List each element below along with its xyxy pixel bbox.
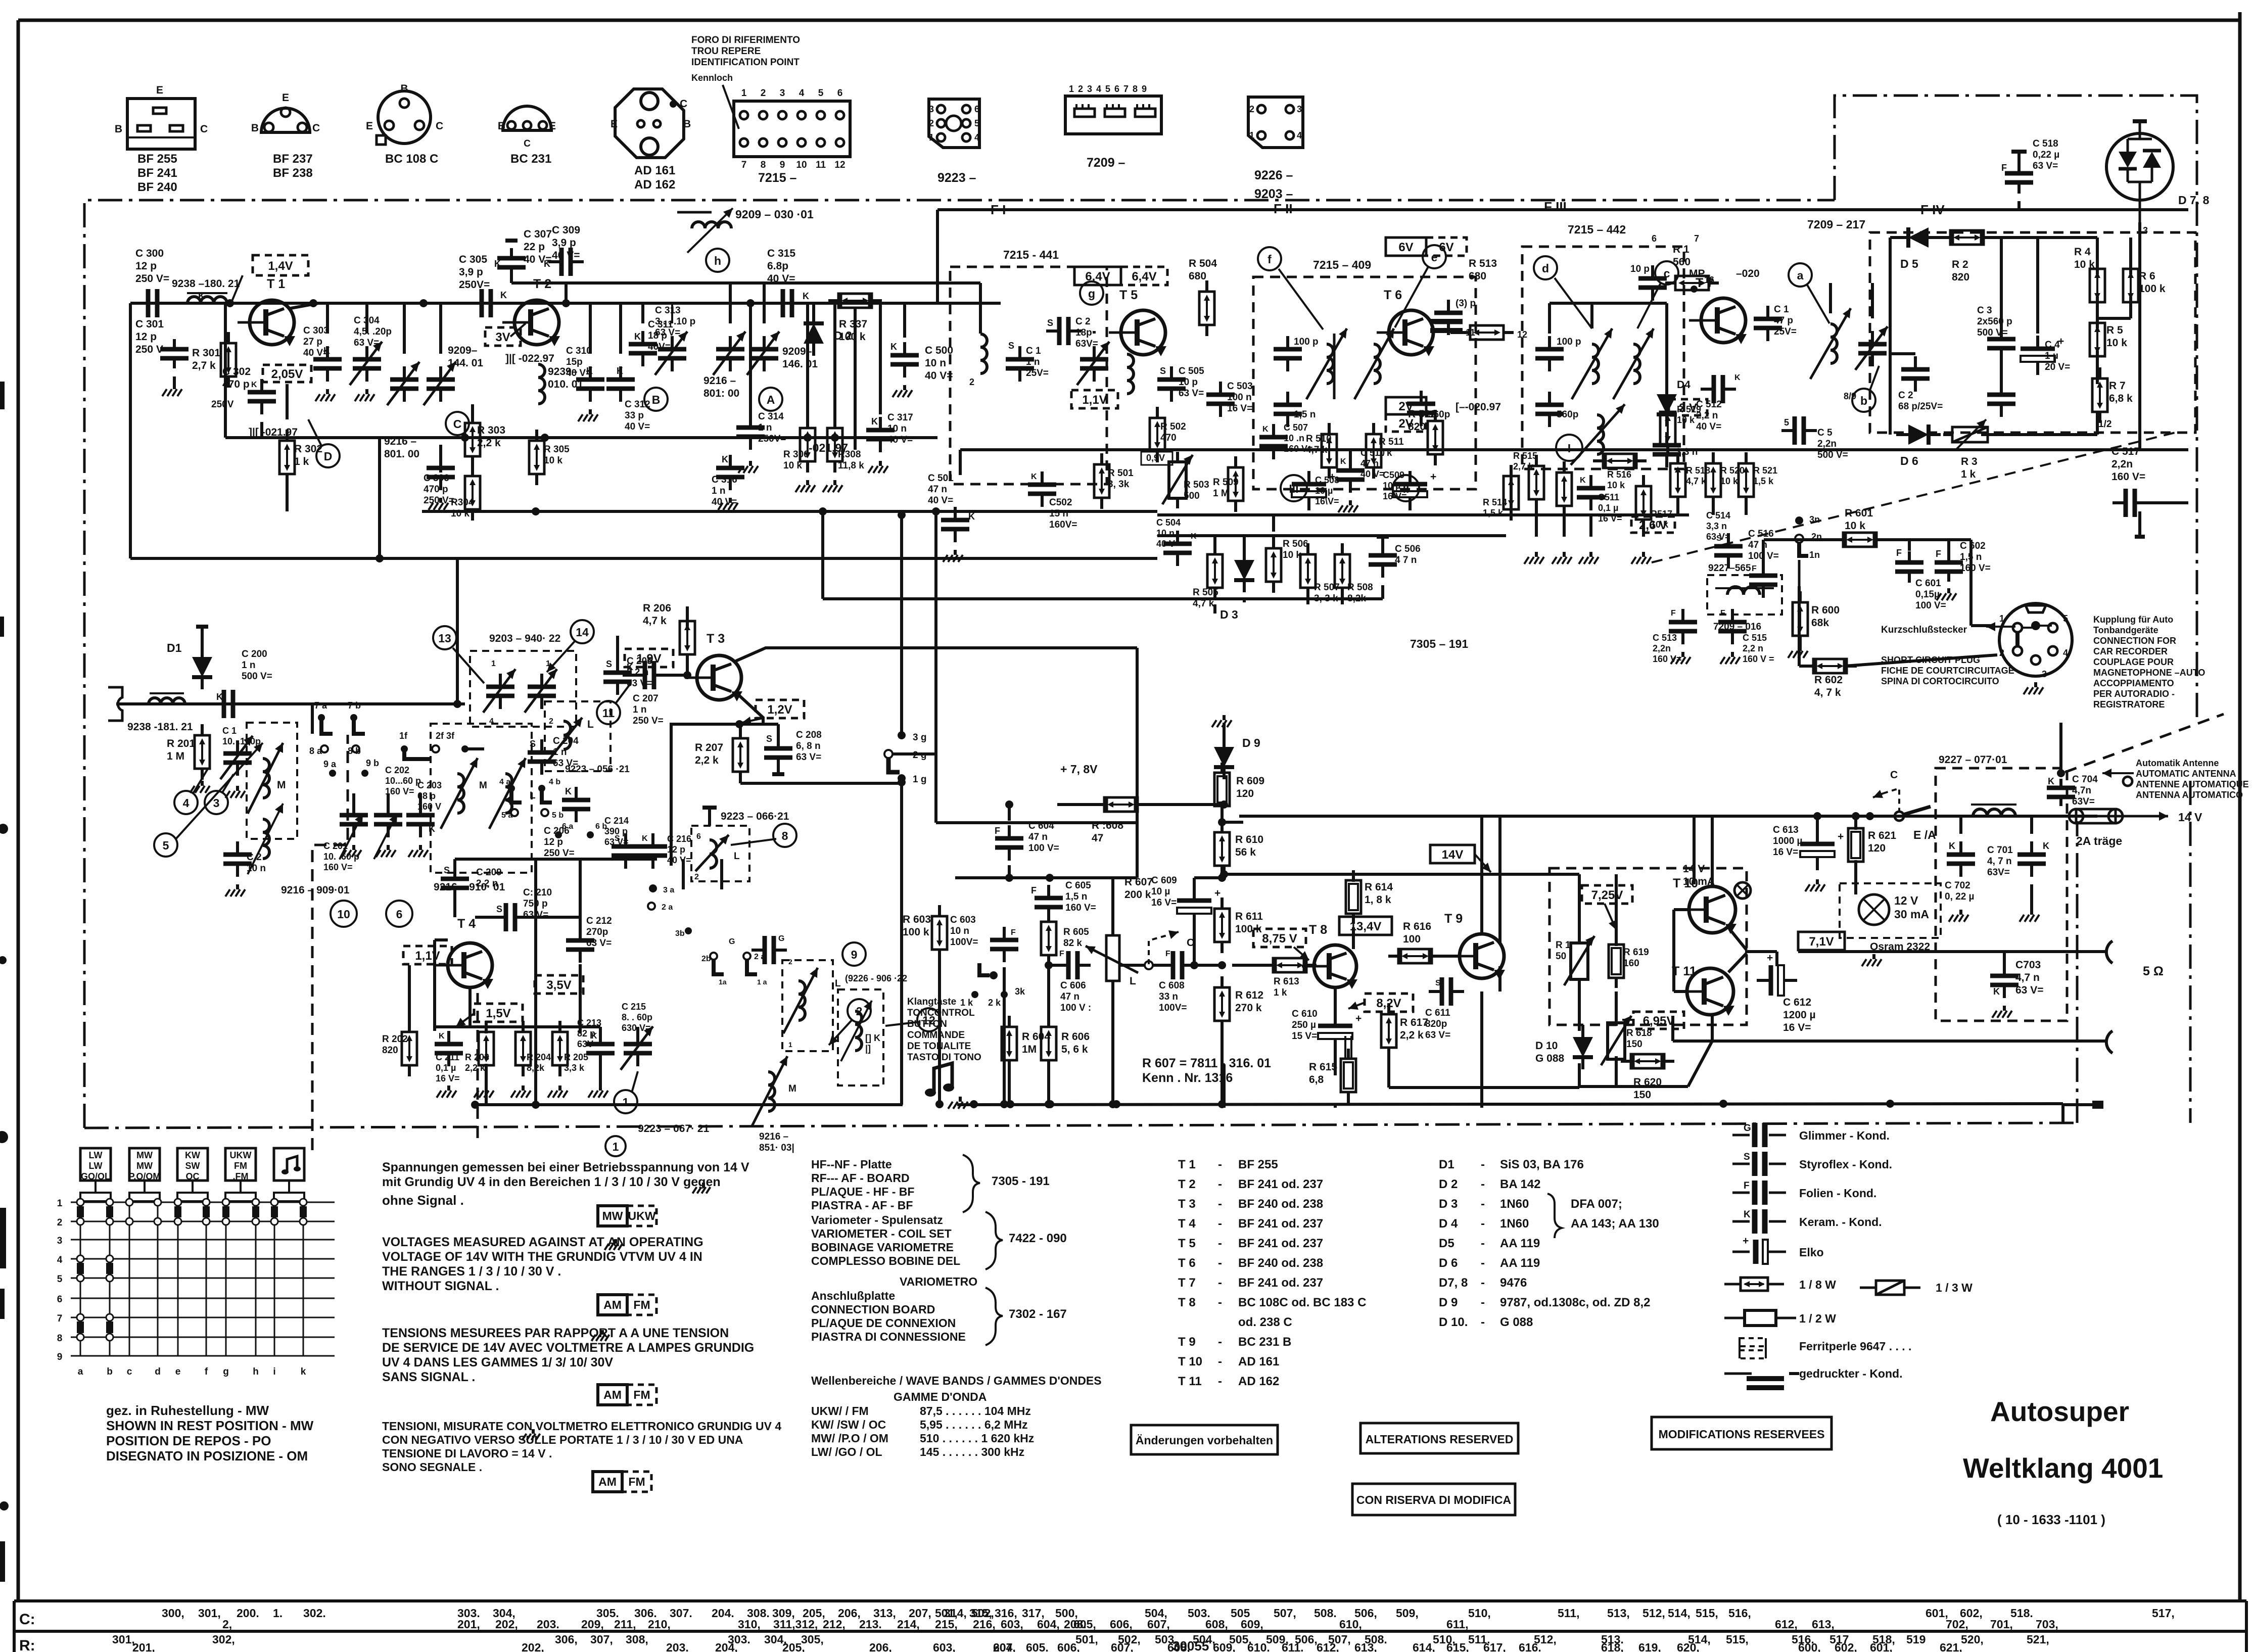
- svg-text:4: 4: [2063, 648, 2068, 658]
- svg-text:603,: 603,: [933, 1641, 956, 1652]
- capacitor C315: [767, 248, 809, 317]
- antenna jack: [108, 687, 130, 721]
- svg-text:CAR RECORDER: CAR RECORDER: [2093, 646, 2168, 656]
- label 8/9: [1844, 391, 1856, 401]
- capacitor C301: [135, 318, 189, 396]
- variable coil M2: [248, 804, 283, 874]
- svg-text:202,: 202,: [522, 1641, 544, 1652]
- svg-text:COUPLAGE POUR: COUPLAGE POUR: [2093, 657, 2174, 667]
- svg-text:6,4V: 6,4V: [1132, 270, 1156, 284]
- wire bus 890 right: [855, 308, 2188, 475]
- svg-text:K: K: [1031, 473, 1037, 481]
- wire 14V rail: [1239, 811, 2202, 824]
- svg-text:K: K: [323, 346, 330, 356]
- svg-text:M: M: [479, 780, 487, 791]
- svg-text:BF 241 od. 237: BF 241 od. 237: [1238, 1276, 1323, 1290]
- title Weltklang 4001: [1963, 1452, 2163, 1484]
- resistor R507: [1300, 543, 1340, 604]
- svg-text:L: L: [530, 790, 536, 801]
- wire T3 collector: [736, 648, 1137, 878]
- svg-text:100 k: 100 k: [2139, 283, 2166, 295]
- svg-text:513,: 513,: [1607, 1607, 1630, 1620]
- circled 11: [597, 683, 631, 724]
- svg-text:C 503: C 503: [1227, 381, 1253, 392]
- svg-text:TENSIONI, MISURATE CON VOL: TENSIONI, MISURATE CON VOLTMETRO ELETTRO…: [382, 1420, 781, 1433]
- resistor R502: [1150, 407, 1186, 462]
- svg-text:63 V=: 63 V=: [1425, 1030, 1450, 1041]
- wires lamp area: [1224, 874, 1579, 1108]
- section label F II: [1274, 201, 1293, 216]
- svg-text:MW: MW: [136, 1150, 153, 1160]
- svg-text:BUTTON: BUTTON: [907, 1019, 947, 1029]
- svg-text:]|[ -022.97: ]|[ -022.97: [505, 353, 554, 364]
- svg-text:B: B: [251, 122, 259, 134]
- svg-text:POSITION DE REPOS - PO: POSITION DE REPOS - PO: [106, 1433, 271, 1448]
- svg-text:10 k: 10 k: [1720, 476, 1739, 486]
- svg-text:10 n: 10 n: [887, 423, 907, 434]
- svg-text:7302 - 167: 7302 - 167: [1009, 1307, 1067, 1321]
- switch contacts 6a 6b: [555, 822, 607, 838]
- svg-text:D 9: D 9: [1242, 736, 1260, 749]
- resistor R515: [1513, 451, 1544, 510]
- svg-text:Wellenbereiche / WAVE BANDS /: Wellenbereiche / WAVE BANDS / GAMMES D'O…: [811, 1374, 1102, 1387]
- switch 1f 2f 3f: [399, 731, 484, 759]
- svg-text:150: 150: [1633, 1089, 1651, 1101]
- svg-text:C: C: [1187, 937, 1194, 949]
- svg-text:R 337: R 337: [839, 318, 867, 330]
- voltage box 3V: [485, 323, 526, 346]
- svg-text:C 301: C 301: [135, 318, 164, 330]
- svg-text:307.: 307.: [670, 1607, 692, 1620]
- svg-text:L: L: [835, 978, 841, 989]
- capacitor C205: [603, 636, 652, 695]
- capacitor C702: [1945, 841, 1975, 922]
- resistor R505: [1193, 543, 1223, 609]
- svg-text:UV 4 DANS LES GAMMES 1/: UV 4 DANS LES GAMMES 1/ 3/ 10/ 30V: [382, 1355, 613, 1370]
- svg-text:620,: 620,: [1677, 1641, 1700, 1652]
- pinout connector 7209: [1065, 84, 1161, 170]
- svg-text:F: F: [1059, 950, 1064, 958]
- svg-text:T 5: T 5: [1178, 1237, 1196, 1250]
- page outer border top: [18, 19, 2240, 22]
- label Kurzschlussstecker: [1881, 622, 2015, 635]
- svg-text:FM: FM: [633, 1298, 650, 1311]
- svg-text:2,2 k: 2,2 k: [1400, 1029, 1424, 1041]
- wire output stage: [1579, 816, 1765, 1087]
- resistor R610: [1214, 821, 1263, 877]
- svg-text:250V=: 250V=: [459, 279, 490, 291]
- svg-text:213.: 213.: [859, 1618, 882, 1631]
- wire trap to lamp: [2135, 511, 2145, 537]
- svg-text:100 n: 100 n: [1227, 392, 1252, 403]
- circled 12: [885, 1008, 941, 1031]
- svg-text:210,: 210,: [648, 1618, 671, 1631]
- voltage box 6V pair: [1386, 238, 1467, 256]
- svg-text:5: 5: [2063, 613, 2068, 624]
- legend 1/8W 1/3W: [1724, 1278, 1973, 1295]
- resistor R614: [1346, 870, 1393, 924]
- svg-text:R 511: R 511: [1379, 437, 1404, 447]
- svg-text:0,1 µ: 0,1 µ: [1598, 503, 1618, 513]
- svg-text:5: 5: [1784, 417, 1789, 428]
- svg-text:7215 – 409: 7215 – 409: [1313, 258, 1371, 271]
- label 9216-851.03: [759, 1131, 794, 1153]
- resistor R304: [451, 465, 480, 521]
- svg-text:G: G: [729, 937, 735, 946]
- capacitor C306: [424, 455, 455, 510]
- svg-text:G 088: G 088: [1500, 1315, 1533, 1329]
- svg-text:9787, od.1308c, od. ZD 8,2: 9787, od.1308c, od. ZD 8,2: [1500, 1296, 1650, 1309]
- transistor T7: [1689, 276, 1747, 344]
- circled g: [1080, 281, 1103, 305]
- svg-text:C 314: C 314: [758, 411, 784, 422]
- svg-text:MW: MW: [602, 1209, 623, 1222]
- svg-text:BC 108 C: BC 108 C: [385, 152, 438, 166]
- svg-text:T 6: T 6: [1384, 288, 1402, 302]
- resistor R337: [828, 294, 882, 343]
- label R607 note: [1142, 1056, 1271, 1085]
- svg-text:308,: 308,: [626, 1633, 648, 1646]
- capacitor C601: [1895, 548, 1946, 611]
- svg-text:C 514: C 514: [1706, 510, 1730, 521]
- svg-text:160 V=: 160 V=: [1284, 444, 1313, 454]
- svg-text:C 2: C 2: [1898, 390, 1913, 401]
- label 9216-801.00b: [703, 375, 739, 399]
- svg-text:15 V=: 15 V=: [1292, 1031, 1317, 1042]
- svg-text:Spannungen gemessen bei ein: Spannungen gemessen bei einer Betriebssp…: [382, 1160, 749, 1174]
- label pins 6 7: [1517, 233, 1699, 340]
- svg-text:7215 –: 7215 –: [758, 171, 797, 185]
- svg-text:C 317: C 317: [887, 412, 913, 423]
- svg-text:C 518: C 518: [2033, 138, 2058, 149]
- svg-text:47 n: 47 n: [1360, 458, 1379, 468]
- svg-text:516,: 516,: [1728, 1607, 1751, 1620]
- svg-text:SW: SW: [185, 1161, 200, 1171]
- svg-text:K: K: [803, 291, 809, 301]
- svg-text:a: a: [78, 1366, 83, 1377]
- svg-text:307,: 307,: [590, 1633, 613, 1646]
- svg-text:205,: 205,: [782, 1641, 805, 1652]
- svg-text:609,: 609,: [1241, 1618, 1263, 1631]
- svg-text:T 4: T 4: [457, 917, 476, 931]
- svg-text:1f: 1f: [399, 731, 408, 741]
- music note symbol: [925, 1063, 954, 1097]
- svg-text:IDENTIFICATION POINT: IDENTIFICATION POINT: [691, 57, 800, 68]
- resistor R501: [1094, 453, 1134, 509]
- svg-text:270p: 270p: [586, 927, 608, 937]
- svg-text:Keram. - Kond.: Keram. - Kond.: [1799, 1215, 1882, 1229]
- svg-text:5: 5: [163, 839, 169, 852]
- svg-text:519: 519: [1906, 1633, 1926, 1646]
- svg-text:40 V=: 40 V=: [1156, 539, 1181, 549]
- svg-text:10 n: 10 n: [950, 926, 969, 936]
- svg-text:12 p: 12 p: [544, 837, 563, 847]
- svg-text:2,2 k: 2,2 k: [465, 1063, 486, 1073]
- svg-text:4,5. .20p: 4,5. .20p: [354, 326, 392, 337]
- svg-text:47 n: 47 n: [928, 484, 947, 495]
- voltage box 7,1V: [1798, 932, 1845, 950]
- svg-text:3k: 3k: [1015, 986, 1025, 997]
- svg-text:2A träge: 2A träge: [2076, 834, 2122, 847]
- svg-text:MW/ /P.O / OM: MW/ /P.O / OM: [811, 1432, 888, 1445]
- resistor R605: [1041, 911, 1089, 966]
- svg-text:150: 150: [1626, 1039, 1642, 1050]
- capacitor C604: [995, 800, 1059, 878]
- capacitor C204: [528, 736, 579, 775]
- svg-text:T 1: T 1: [267, 277, 285, 291]
- trimmer group 9216-801b: [713, 283, 745, 375]
- svg-text:Tonbandgeräte: Tonbandgeräte: [2093, 625, 2158, 635]
- svg-text:1N60: 1N60: [1500, 1197, 1529, 1211]
- wire speaker lines: [1673, 941, 2164, 1053]
- svg-text:k: k: [301, 1366, 306, 1377]
- resistor R616: [1388, 921, 1442, 963]
- svg-text:2f 3f: 2f 3f: [436, 731, 455, 741]
- svg-text:-: -: [1481, 1158, 1485, 1171]
- svg-text:0,15µ: 0,15µ: [1915, 589, 1940, 600]
- svg-text:F: F: [1720, 609, 1725, 618]
- svg-text:R 1: R 1: [1556, 940, 1571, 951]
- variable coil a: [1810, 283, 1851, 379]
- svg-text:KW: KW: [185, 1150, 200, 1160]
- svg-text:Autosuper: Autosuper: [1990, 1396, 2129, 1427]
- svg-text:S: S: [444, 865, 450, 875]
- svg-text:K: K: [1993, 986, 2000, 997]
- svg-text:S: S: [1160, 366, 1166, 376]
- svg-text:C 515: C 515: [1743, 633, 1767, 643]
- svg-text:8. . 60p: 8. . 60p: [622, 1012, 652, 1022]
- svg-text:10 n: 10 n: [925, 357, 946, 369]
- svg-text:3 g: 3 g: [913, 732, 926, 743]
- svg-text:7: 7: [1123, 84, 1129, 94]
- capacitor C3b: [1987, 382, 2015, 417]
- transistor T5: [1109, 288, 1166, 356]
- svg-text:C 300: C 300: [135, 248, 164, 259]
- svg-text:C 516: C 516: [1748, 529, 1774, 539]
- svg-text:K: K: [216, 692, 223, 702]
- capacitor fm 560p: [1407, 391, 1450, 426]
- svg-text:100 k: 100 k: [839, 331, 866, 343]
- svg-text:613,: 613,: [1812, 1618, 1835, 1631]
- svg-text:8/9: 8/9: [1844, 391, 1856, 401]
- coil 9238-181.21: [127, 693, 193, 733]
- svg-text:10 k: 10 k: [2074, 259, 2095, 270]
- resistor R620: [1621, 1054, 1674, 1101]
- svg-text:S: S: [766, 734, 772, 744]
- svg-text:R 1: R 1: [1673, 244, 1689, 255]
- svg-text:160 V=: 160 V=: [1960, 563, 1991, 574]
- bottom strip frame: [14, 1601, 2246, 1652]
- dashed box 7215-409: [1253, 258, 1476, 489]
- svg-text:-: -: [1218, 1256, 1222, 1270]
- svg-text:40 V=: 40 V=: [767, 273, 795, 285]
- svg-text:S: S: [615, 834, 620, 843]
- svg-text:Glimmer - Kond.: Glimmer - Kond.: [1799, 1129, 1890, 1142]
- svg-text:209,: 209,: [581, 1618, 604, 1631]
- svg-text:K: K: [2043, 841, 2049, 851]
- svg-text:100 p: 100 p: [1557, 337, 1581, 347]
- svg-text:K: K: [890, 342, 897, 352]
- svg-text:D 4: D 4: [1439, 1217, 1458, 1231]
- variable coil fm3: [1572, 328, 1612, 399]
- svg-text:4: 4: [799, 88, 805, 99]
- svg-text:D 10: D 10: [1535, 1040, 1558, 1052]
- svg-text:1000 µ: 1000 µ: [1773, 836, 1803, 846]
- svg-text:160 V =: 160 V =: [1743, 654, 1774, 664]
- resistor R602: [1803, 659, 1857, 698]
- switch 2b 2a G: [701, 937, 767, 986]
- svg-text:605,: 605,: [1073, 1618, 1096, 1631]
- bottom strip R numbers: [112, 1633, 2049, 1652]
- svg-text:510 . . . . . . 1 620 k: 510 . . . . . . 1 620 kHz: [920, 1432, 1034, 1445]
- svg-text:206,: 206,: [869, 1641, 892, 1652]
- resistor R611: [1214, 898, 1263, 953]
- svg-text:e: e: [1431, 251, 1438, 264]
- svg-text:8: 8: [57, 1333, 63, 1344]
- svg-text:PL/AQUE DE CONNEXION: PL/AQUE DE CONNEXION: [811, 1316, 956, 1330]
- pinout connector 7215: [734, 88, 850, 185]
- svg-text:40 V=: 40 V=: [1696, 421, 1721, 432]
- svg-text:311,312,: 311,312,: [773, 1618, 818, 1631]
- svg-text:C 1: C 1: [222, 726, 237, 736]
- svg-text:200.: 200.: [237, 1607, 259, 1620]
- svg-text:306,: 306,: [555, 1633, 578, 1646]
- svg-text:9209–: 9209–: [448, 345, 478, 356]
- svg-text:25V=: 25V=: [1026, 368, 1049, 379]
- svg-text:10 k: 10 k: [1283, 550, 1301, 560]
- svg-text:310,: 310,: [738, 1618, 761, 1631]
- svg-text:1: 1: [613, 1140, 619, 1153]
- svg-text:D 7. 8: D 7. 8: [2178, 194, 2210, 207]
- resistor R604: [1002, 1016, 1050, 1104]
- circled 4: [174, 768, 208, 814]
- svg-text:6: 6: [396, 908, 403, 921]
- svg-text:e: e: [175, 1366, 181, 1377]
- svg-text:9 a: 9 a: [323, 759, 337, 769]
- schematic dash-dot frame top: [84, 200, 1835, 1128]
- circled 5: [154, 743, 263, 857]
- svg-text:10 p: 10 p: [1179, 377, 1198, 388]
- resistor R303: [465, 412, 505, 467]
- trimmer C313: [655, 305, 695, 375]
- svg-text:3n: 3n: [1809, 514, 1820, 525]
- capacitor C317: [866, 412, 913, 452]
- svg-text:KW/ /SW / OC: KW/ /SW / OC: [811, 1418, 886, 1431]
- svg-text:BF 241: BF 241: [137, 166, 177, 180]
- svg-text:S: S: [1744, 1152, 1750, 1162]
- capacitor C517: [2111, 446, 2188, 517]
- circled h: [706, 249, 729, 272]
- svg-text:3: 3: [2042, 669, 2047, 679]
- wire AM mid connections: [327, 303, 880, 473]
- svg-text:1,4V: 1,4V: [268, 259, 293, 273]
- svg-text:CONNECTION FOR: CONNECTION FOR: [2093, 636, 2176, 646]
- wires ratio det: [1890, 238, 2131, 435]
- svg-text:R :608: R :608: [1092, 820, 1123, 831]
- svg-text:3b: 3b: [675, 929, 685, 938]
- svg-text:a: a: [1797, 269, 1804, 282]
- pinout package BC108C: [366, 83, 443, 166]
- boxed MW UKW: [598, 1206, 656, 1226]
- svg-text:610.: 610.: [1247, 1641, 1270, 1652]
- svg-text:C: C: [436, 120, 443, 132]
- svg-text:T 8: T 8: [1309, 923, 1327, 937]
- ground osc: [437, 1085, 608, 1098]
- svg-text:30 mA: 30 mA: [1894, 908, 1929, 921]
- svg-text:-: -: [1481, 1177, 1485, 1191]
- svg-text:27 p: 27 p: [303, 337, 322, 347]
- svg-text:10 n: 10 n: [247, 863, 266, 874]
- svg-text:R 609: R 609: [1236, 775, 1264, 787]
- circled 2: [829, 999, 871, 1045]
- svg-text:9227 – 077·01: 9227 – 077·01: [1939, 754, 2007, 766]
- svg-text:2 k: 2 k: [988, 998, 1001, 1008]
- boxed AM FM 2: [598, 1385, 656, 1405]
- svg-text:612,: 612,: [1317, 1641, 1339, 1652]
- svg-text:R 204: R 204: [527, 1052, 551, 1062]
- svg-text:1,5 k: 1,5 k: [1753, 476, 1774, 486]
- bottom strip C numbers: [162, 1607, 2175, 1631]
- svg-text:D7, 8: D7, 8: [1439, 1276, 1468, 1290]
- ground cluster AM: [738, 461, 888, 492]
- svg-text:C 212: C 212: [586, 916, 612, 926]
- svg-text:CON NEGATIVO VERSO S: CON NEGATIVO VERSO SULLE PORTATE 1 / 3 /…: [382, 1433, 743, 1446]
- svg-text:680: 680: [1469, 270, 1486, 282]
- svg-text:9476: 9476: [1500, 1276, 1527, 1290]
- resistor R514: [1483, 465, 1519, 521]
- svg-text:6: 6: [1652, 233, 1657, 244]
- resistor R302: [279, 384, 322, 511]
- svg-text:F: F: [1936, 549, 1941, 559]
- svg-text:602,: 602,: [1835, 1641, 1857, 1652]
- svg-text:508.: 508.: [1314, 1607, 1337, 1620]
- pinout package BF255: [115, 84, 208, 194]
- circled 3: [205, 774, 233, 814]
- svg-text:3: 3: [57, 1236, 63, 1246]
- resistor R306: [783, 417, 815, 473]
- svg-text:604: 604: [993, 1641, 1013, 1652]
- resistor R510: [1306, 423, 1337, 479]
- svg-text:SiS 03, BA 176: SiS 03, BA 176: [1500, 1158, 1584, 1171]
- svg-text:(3) p: (3) p: [1456, 298, 1476, 309]
- svg-text:1: 1: [788, 1041, 792, 1049]
- voltage box 1,2V: [742, 700, 804, 725]
- svg-text:AD 162: AD 162: [1238, 1375, 1279, 1388]
- capacitor C3a: [1977, 305, 2015, 361]
- svg-text:0,1 µ: 0,1 µ: [436, 1063, 456, 1073]
- dashed box 13 14: [470, 633, 576, 727]
- dash-dot vertical right inner: [2076, 821, 2079, 1123]
- svg-text:40 V=: 40 V=: [712, 497, 737, 507]
- capacitor C510a 100p: [1535, 336, 1581, 371]
- resistor R513: [1450, 258, 1514, 340]
- variable coil L osc: [783, 942, 866, 1049]
- svg-text:AM: AM: [603, 1388, 622, 1401]
- capacitor C213: [577, 1018, 615, 1066]
- svg-text:7305 - 191: 7305 - 191: [992, 1174, 1050, 1188]
- svg-text:4 b: 4 b: [549, 778, 560, 786]
- svg-text:C 315: C 315: [767, 248, 795, 259]
- capacitor C208: [764, 730, 822, 774]
- svg-text:7209 – 016: 7209 – 016: [1713, 622, 1761, 632]
- svg-text:9209 – 030 ·01: 9209 – 030 ·01: [735, 208, 814, 221]
- svg-text:K: K: [544, 259, 550, 269]
- svg-text:10: 10: [337, 908, 350, 921]
- svg-text:613,: 613,: [1354, 1641, 1377, 1652]
- svg-text:8: 8: [782, 829, 788, 842]
- svg-text:C 609: C 609: [1151, 875, 1177, 886]
- schematic dash-dot frame bottom: [84, 1123, 2077, 1128]
